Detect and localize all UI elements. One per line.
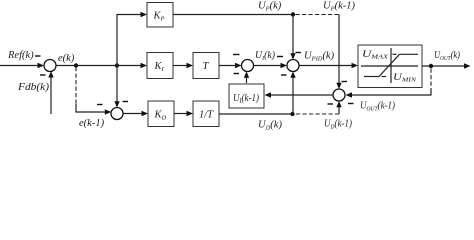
saturation block U1 — [358, 45, 422, 88]
svg-text:UD(k-1): UD(k-1) — [324, 119, 352, 131]
wire KD to 1/T — [174, 111, 193, 116]
svg-text:Ref(k): Ref(k) — [7, 50, 34, 61]
saturation curve diagonal — [379, 54, 400, 76]
node dot U_D — [290, 112, 294, 116]
block KI — [147, 53, 173, 79]
saturation symbol horizontal axis — [361, 65, 418, 67]
wire KI to T — [173, 63, 193, 68]
wire KP output to node — [173, 14, 293, 16]
svg-text:1/T: 1/T — [199, 110, 214, 121]
svg-text:UP(k-1): UP(k-1) — [323, 1, 355, 13]
wire saturation output U_OUT(k) — [422, 63, 471, 68]
summing junction S2 — [242, 60, 254, 72]
saturation lower level tick — [382, 76, 387, 78]
wire Fdb(k) input — [48, 71, 53, 114]
svg-text:e(k): e(k) — [58, 53, 75, 64]
svg-text:e(k-1): e(k-1) — [79, 118, 105, 129]
saturation curve upper clip — [400, 53, 419, 55]
dashed wire U_P(k-1) — [296, 14, 340, 16]
wire up to KP — [117, 12, 147, 66]
node dot at e(k) branch up/down — [115, 63, 119, 67]
wire e(k) down into S4 top — [114, 66, 119, 108]
wire S5 output to U_I(k-1) block — [265, 92, 334, 97]
saturation curve lower clip — [364, 76, 379, 78]
block KD — [148, 101, 174, 127]
node dot at e(k) branch to e(k-1) — [74, 63, 78, 67]
dashed feedback down from output node — [430, 69, 432, 90]
minus sign left of S2 — [233, 54, 240, 56]
node dot U_P(k) — [291, 12, 295, 16]
saturation symbol vertical axis — [390, 48, 392, 83]
minus sign right of S4 top input — [123, 101, 129, 103]
minus sign on S2 bottom input — [234, 73, 240, 75]
summing junction S5 — [333, 89, 345, 101]
svg-text:Fdb(k): Fdb(k) — [17, 82, 50, 93]
block KP — [147, 3, 173, 28]
svg-text:UOUT(k-1): UOUT(k-1) — [360, 101, 395, 113]
wire down from U_P(k-1) corner to S5 top — [336, 15, 341, 90]
minus sign on S5 bottom input — [328, 103, 334, 105]
block 1/T — [193, 101, 219, 127]
wire Ref(k) input — [0, 63, 44, 68]
svg-text:UP(k): UP(k) — [258, 1, 282, 13]
wire S2 to S3 — [254, 63, 288, 68]
wire S4 to KD — [123, 111, 148, 116]
minus sign right of S3 top input — [296, 52, 302, 54]
minus sign below U_OUT(k-1) wire — [348, 103, 354, 105]
summing junction S1 — [44, 60, 56, 72]
dashed wire U_D(k-1) — [296, 113, 339, 115]
summing junction S3 — [287, 60, 299, 72]
svg-text:UI(k-1): UI(k-1) — [233, 92, 259, 105]
dashed wire e(k) down to e(k-1) — [75, 67, 77, 105]
wire e(k-1) into S4 — [76, 104, 111, 115]
node dot on output — [429, 64, 433, 68]
wire 1/T output U_D(k) — [219, 113, 293, 115]
wire down from U_P node to S3 top — [290, 15, 295, 60]
summing junction S4 — [111, 108, 123, 120]
minus sign right of S5 top input — [342, 81, 348, 83]
svg-text:UI(k): UI(k) — [255, 50, 275, 62]
wire U_D up into S3 bottom — [290, 72, 295, 115]
minus sign on Ref input — [35, 55, 41, 57]
wire U_D(k-1) up into S5 bottom — [336, 101, 341, 114]
minus sign on Fdb input — [40, 74, 46, 76]
saturation upper level tick — [393, 53, 397, 55]
block T — [193, 53, 219, 79]
wire e(k) from S1 to KI — [56, 63, 147, 68]
wire feedback U_OUT(k-1) into S5 — [346, 89, 432, 98]
minus sign on S3 bottom input — [281, 74, 287, 76]
minus sign on e(k-1) input — [97, 104, 103, 106]
wire S3 to saturation block — [299, 63, 358, 68]
wire T to S2 — [219, 63, 242, 68]
svg-text:UD(k): UD(k) — [258, 120, 282, 132]
block U_I(k-1) — [229, 84, 264, 108]
wire U_I(k-1) block up to S2 — [244, 72, 249, 84]
minus sign left of S3 — [277, 56, 283, 58]
